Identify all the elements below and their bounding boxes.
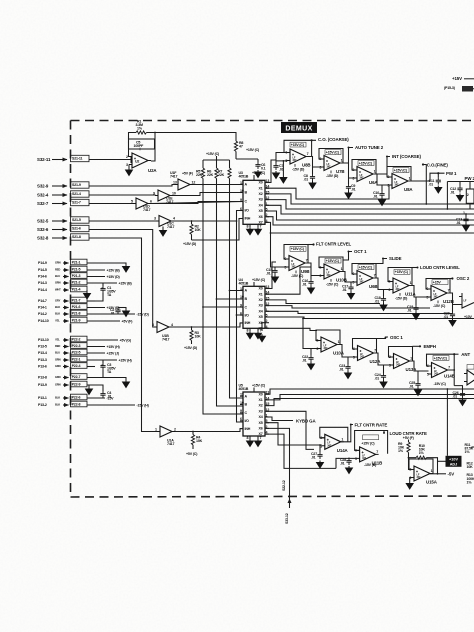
- label C.O. COARSE: [306, 137, 349, 156]
- wire U4 X6 run down: [262, 323, 266, 331]
- op-amp U14B: [427, 354, 455, 386]
- IC U3 4051B multiplexer: [239, 171, 270, 228]
- svg-text:ORN: ORN: [55, 281, 61, 285]
- svg-text:-15V (H): -15V (H): [137, 403, 150, 407]
- IC U4 4051B multiplexer: [239, 278, 270, 332]
- svg-text:7417: 7417: [143, 208, 150, 212]
- wire U11A to U12B: [409, 286, 428, 306]
- svg-text:OSC 2: OSC 2: [457, 276, 470, 281]
- op-amp U6B: [352, 264, 377, 290]
- svg-text:BLK: BLK: [55, 403, 60, 407]
- op-amp U9B: [284, 245, 309, 278]
- wire U13A to U14B: [410, 361, 429, 381]
- op-amp U12B: [426, 279, 454, 309]
- wire U14A input: [310, 444, 322, 452]
- svg-text:1: 1: [338, 340, 340, 344]
- svg-text:P14-6: P14-6: [38, 275, 47, 279]
- svg-text:+15V (J): +15V (J): [107, 351, 120, 355]
- svg-text:-5V: -5V: [448, 472, 455, 477]
- svg-text:10K: 10K: [467, 465, 474, 469]
- svg-text:P13-4: P13-4: [38, 351, 47, 355]
- svg-text:.01: .01: [429, 182, 434, 186]
- svg-text:INH: INH: [245, 321, 251, 325]
- svg-text:+5V (C): +5V (C): [186, 452, 198, 456]
- ground below C8: [309, 181, 316, 188]
- ground below C17: [348, 292, 355, 299]
- svg-text:BLU: BLU: [55, 274, 60, 278]
- svg-text:+15V (C): +15V (C): [326, 259, 340, 263]
- svg-text:3: 3: [126, 163, 128, 167]
- ground below C18: [380, 303, 387, 310]
- svg-text:X2: X2: [259, 404, 263, 408]
- svg-text:100PF: 100PF: [134, 144, 145, 148]
- ground below U8B input: [280, 176, 287, 183]
- capacitor C3: [95, 363, 116, 378]
- svg-text:GRN: GRN: [55, 261, 61, 265]
- op-amp U2A: [126, 153, 157, 173]
- capacitor C6 0.1: [236, 159, 266, 177]
- capacitor C28 .01: [340, 458, 352, 465]
- capacitor C12 .01: [450, 182, 463, 195]
- svg-text:BLK: BLK: [55, 312, 60, 316]
- resistor R1 3.3M: [136, 120, 147, 135]
- svg-text:6: 6: [284, 257, 286, 261]
- resistor R13 100K: [467, 473, 474, 484]
- connector input S32-9 to S21-9: [37, 182, 89, 189]
- svg-text:2: 2: [319, 266, 321, 270]
- capacitor C15 .01: [266, 268, 278, 275]
- svg-text:47: 47: [239, 145, 243, 149]
- svg-text:X2: X2: [259, 298, 263, 302]
- svg-text:2: 2: [467, 193, 469, 197]
- svg-text:7: 7: [306, 259, 308, 263]
- svg-text:8: 8: [247, 436, 249, 440]
- svg-text:P22-7: P22-7: [72, 375, 81, 379]
- ground below U4 pin8: [247, 331, 254, 338]
- svg-text:2: 2: [389, 355, 391, 359]
- bus vertical I/O: [236, 221, 243, 316]
- svg-text:P13-8: P13-8: [38, 376, 47, 380]
- wire U3 X6 rail: [266, 217, 474, 225]
- wire U3 X5 rail: [266, 211, 474, 220]
- svg-text:13: 13: [173, 181, 177, 185]
- svg-text:X3: X3: [259, 409, 263, 413]
- svg-text:P13-9: P13-9: [38, 383, 47, 387]
- svg-text:+15V (C): +15V (C): [359, 265, 373, 269]
- wire U1A output to U5 INH: [175, 429, 243, 433]
- wire U5 X2 rail: [266, 399, 474, 406]
- svg-text:1: 1: [341, 438, 343, 442]
- connector input S32-8 to S21-8: [37, 234, 89, 241]
- wire row A to U3: [193, 184, 243, 186]
- svg-text:S32-6: S32-6: [37, 227, 49, 232]
- svg-text:+5V (F): +5V (F): [182, 172, 194, 176]
- wire U6A to U8A: [373, 174, 389, 191]
- svg-text:X4: X4: [259, 203, 263, 207]
- capacitor C5 100PF feedback: [129, 139, 155, 150]
- svg-text:U12A: U12A: [370, 359, 382, 364]
- svg-text:P13-6: P13-6: [38, 365, 47, 369]
- connector input P13-2 to P22-8: [38, 401, 150, 407]
- capacitor C11 .01: [429, 173, 441, 186]
- svg-text:-15V (C): -15V (C): [326, 283, 339, 287]
- svg-text:+15V (C): +15V (C): [395, 270, 409, 274]
- svg-text:I/O: I/O: [245, 419, 250, 423]
- wire S33-12 crossing border: [288, 474, 292, 508]
- svg-text:2: 2: [320, 436, 322, 440]
- svg-text:P22-5: P22-5: [72, 350, 81, 354]
- svg-text:10K: 10K: [195, 228, 202, 232]
- wire U3 X2 rail: [266, 194, 474, 204]
- ground below U4 pin7: [255, 331, 262, 338]
- ground below U15A: [406, 478, 414, 489]
- trimmer box PW 2: [463, 182, 474, 216]
- connector input P13-1 to P22-6: [38, 394, 114, 400]
- svg-text:GRY: GRY: [55, 299, 61, 303]
- svg-text:U2A: U2A: [148, 168, 157, 173]
- svg-text:S32-7: S32-7: [37, 201, 49, 206]
- svg-text:.01: .01: [453, 394, 458, 398]
- svg-text:X0: X0: [259, 181, 263, 185]
- svg-text:-15V (C): -15V (C): [291, 274, 304, 278]
- svg-text:11: 11: [240, 393, 244, 397]
- svg-text:I/O: I/O: [245, 209, 250, 213]
- svg-text:-15V (D): -15V (D): [395, 296, 408, 300]
- buffer U1B 7417: [152, 322, 173, 342]
- svg-text:-15V (D): -15V (D): [292, 168, 305, 172]
- svg-text:.01: .01: [444, 315, 449, 319]
- svg-text:1: 1: [409, 177, 411, 181]
- ground below C15: [272, 275, 279, 282]
- label ANT: [453, 352, 470, 357]
- svg-text:S21-11: S21-11: [72, 156, 82, 160]
- svg-text:22K: 22K: [207, 173, 214, 177]
- svg-text:P14-1: P14-1: [38, 306, 47, 310]
- resistors R5 R6 R7 22K pull-ups: [196, 152, 231, 203]
- svg-text:1: 1: [341, 267, 343, 271]
- wire PW 2 net: [447, 176, 474, 210]
- svg-text:-15V (C): -15V (C): [434, 382, 447, 386]
- wire U5 X1 rail: [266, 395, 474, 400]
- svg-text:P14-3: P14-3: [38, 281, 47, 285]
- svg-text:X1: X1: [259, 292, 263, 296]
- ground below C11: [435, 186, 442, 193]
- svg-text:1: 1: [155, 428, 157, 432]
- svg-text:+15V (C): +15V (C): [206, 152, 220, 156]
- svg-text:+15V (C): +15V (C): [359, 161, 373, 165]
- svg-text:6: 6: [355, 449, 357, 453]
- connector input P13-10 to P22-2: [38, 336, 132, 342]
- connector input P14-1 to P21-6: [38, 304, 129, 317]
- svg-text:+15V: +15V: [452, 76, 462, 81]
- connector input P13-9 to P22-9: [38, 381, 92, 394]
- op-amp U7B: [319, 149, 344, 179]
- svg-text:+15V (C): +15V (C): [291, 247, 305, 251]
- ground below C19: [413, 312, 420, 319]
- svg-text:I/O: I/O: [245, 313, 250, 317]
- svg-text:+15V (H): +15V (H): [107, 345, 121, 349]
- svg-text:.01: .01: [373, 194, 378, 198]
- node S33-12 vertical label: [285, 513, 289, 524]
- wire U8B to U7B: [312, 157, 321, 175]
- svg-text:8: 8: [247, 328, 249, 332]
- node S22-12 vertical label: [282, 480, 286, 491]
- resistor R10 10K: [408, 444, 438, 474]
- ground below U5 pin8: [247, 439, 254, 446]
- svg-text:X1: X1: [259, 186, 263, 190]
- wire U5 X7 run: [266, 434, 336, 468]
- svg-text:+15V (D): +15V (D): [107, 275, 121, 279]
- ground below C25: [415, 388, 422, 395]
- svg-text:PW 2: PW 2: [465, 176, 474, 181]
- op-amp U11B: [355, 431, 388, 466]
- svg-text:+5V (F): +5V (F): [403, 436, 415, 440]
- svg-text:3: 3: [387, 184, 389, 188]
- op-amp U8A: [387, 167, 413, 193]
- svg-text:S21-5: S21-5: [72, 218, 81, 222]
- svg-text:P21-4: P21-4: [72, 287, 81, 291]
- wire +10V feed: [447, 388, 449, 456]
- bus vertical A to U5: [230, 291, 244, 399]
- svg-text:P21-8: P21-8: [72, 311, 81, 315]
- svg-text:X0: X0: [259, 392, 263, 396]
- resistor R8 47: [234, 141, 260, 159]
- op-amp U10B: [319, 257, 347, 287]
- capacitor C19 .01: [407, 305, 419, 312]
- svg-text:7: 7: [448, 289, 450, 293]
- svg-text:X1: X1: [259, 398, 263, 402]
- svg-text:7: 7: [374, 274, 376, 278]
- buffer U1F 7417: [89, 171, 195, 190]
- svg-text:3: 3: [319, 166, 321, 170]
- svg-text:.01: .01: [375, 299, 380, 303]
- op-amp U6A: [352, 160, 378, 186]
- svg-text:AUTO TUNE 2: AUTO TUNE 2: [355, 145, 384, 150]
- svg-text:S32-8: S32-8: [37, 235, 49, 240]
- svg-text:P14-9: P14-9: [38, 261, 47, 265]
- wire U3 X0 run: [266, 160, 276, 183]
- svg-text:BLU: BLU: [55, 351, 60, 355]
- svg-text:22K: 22K: [218, 173, 225, 177]
- wire row B to U3: [173, 192, 243, 196]
- wire U4 X4 rail: [266, 311, 452, 313]
- ground below U2A: [126, 168, 133, 175]
- connector input P14-5 to P21-5: [38, 266, 121, 272]
- svg-text:10K: 10K: [196, 439, 203, 443]
- svg-text:3: 3: [152, 323, 154, 327]
- svg-text:P22-2: P22-2: [72, 337, 81, 341]
- svg-text:.01: .01: [340, 461, 345, 465]
- svg-text:2: 2: [387, 175, 389, 179]
- ground below C10: [379, 198, 386, 205]
- svg-text:2: 2: [126, 155, 128, 159]
- svg-text:X2: X2: [259, 192, 263, 196]
- ground below C16: [308, 286, 315, 293]
- svg-text:4051B: 4051B: [239, 175, 249, 179]
- ground below C23: [345, 371, 352, 378]
- wire U7B to U6A: [343, 163, 354, 184]
- svg-text:12: 12: [192, 181, 196, 185]
- svg-text:FLT CNTR RATE: FLT CNTR RATE: [355, 422, 388, 427]
- bus vertical I/O to U5: [237, 315, 244, 422]
- svg-text:7: 7: [260, 328, 262, 332]
- svg-text:6: 6: [353, 347, 355, 351]
- svg-text:C.O.(FINE): C.O.(FINE): [427, 162, 449, 167]
- svg-text:TA: TA: [107, 370, 112, 374]
- wire U9B to U10B: [305, 263, 321, 279]
- svg-text:+10V: +10V: [464, 315, 473, 319]
- svg-text:P14-7: P14-7: [38, 299, 47, 303]
- connector input P14-2 to P21-8: [38, 310, 150, 316]
- ground below C22: [308, 362, 315, 369]
- wire U10A to U12A: [337, 345, 355, 365]
- svg-text:.01: .01: [456, 221, 461, 225]
- svg-text:1: 1: [374, 170, 376, 174]
- capacitor C9 .01: [346, 184, 356, 191]
- svg-text:.01: .01: [302, 358, 307, 362]
- svg-text:INT (COARSE): INT (COARSE): [392, 154, 421, 159]
- svg-text:X5: X5: [259, 315, 263, 319]
- wire U10B to U6B: [340, 272, 354, 285]
- svg-text:S32-4: S32-4: [37, 192, 49, 197]
- svg-text:6: 6: [150, 200, 152, 204]
- svg-text:C.O. (COARSE): C.O. (COARSE): [318, 137, 349, 142]
- svg-text:.01: .01: [302, 282, 307, 286]
- wire U5 X6 run to S33-12: [266, 428, 290, 474]
- connector input S32-7 to S21-7: [37, 199, 89, 206]
- label OSC 2: [450, 276, 470, 281]
- capacitor C1: [95, 286, 116, 301]
- label -15V B: [364, 463, 377, 467]
- wire U3 X3 rail: [266, 200, 474, 209]
- svg-text:U6B: U6B: [369, 284, 377, 289]
- ground below C9: [345, 191, 352, 198]
- resistor R11 87.5K: [465, 443, 474, 454]
- svg-text:P14-5: P14-5: [38, 268, 47, 272]
- wire U2A feedback loop: [129, 133, 156, 162]
- buffer U1C 7417: [89, 216, 175, 230]
- svg-text:GRN: GRN: [55, 375, 61, 379]
- capacitor C20 .01: [444, 312, 456, 319]
- svg-text:-15V (D): -15V (D): [326, 174, 339, 178]
- connector input S32-4 to S21-4: [37, 191, 89, 198]
- connector input P13-6 to P22-4: [38, 363, 95, 369]
- svg-text:P21-3: P21-3: [72, 274, 81, 278]
- svg-text:INH: INH: [245, 217, 251, 221]
- svg-text:9: 9: [240, 409, 242, 413]
- svg-text:U2: U2: [135, 160, 139, 164]
- ground below C24: [380, 380, 387, 387]
- connector input P14-9 to P21-1: [38, 259, 129, 272]
- svg-text:.01: .01: [351, 187, 356, 191]
- svg-text:1: 1: [431, 469, 433, 473]
- svg-text:1: 1: [410, 357, 412, 361]
- svg-text:S21-8: S21-8: [72, 235, 81, 239]
- svg-text:YEL: YEL: [55, 319, 60, 323]
- svg-text:+15V (D): +15V (D): [183, 242, 197, 246]
- label C.O. FINE: [408, 162, 448, 205]
- svg-text:+15V (C): +15V (C): [394, 168, 408, 172]
- svg-text:P13-10: P13-10: [38, 338, 49, 342]
- op-amp U8B: [284, 140, 312, 171]
- svg-text:2: 2: [316, 339, 318, 343]
- svg-text:X0: X0: [259, 287, 263, 291]
- svg-text:P22-1: P22-1: [72, 357, 81, 361]
- capacitor C8 .01: [304, 174, 316, 181]
- capacitor C4: [89, 385, 112, 398]
- svg-text:RED: RED: [55, 268, 60, 272]
- svg-text:+15V (C): +15V (C): [326, 150, 340, 154]
- svg-text:U10A: U10A: [333, 351, 345, 356]
- svg-text:0.1: 0.1: [261, 166, 266, 170]
- svg-text:P14-4: P14-4: [38, 288, 47, 292]
- wire U6B to U11A: [373, 278, 390, 296]
- label EMPH: [413, 344, 436, 349]
- buffer U1E 7417: [89, 190, 176, 204]
- wire U5 X0 rail: [266, 389, 474, 394]
- wire U15A output -5V: [430, 472, 454, 477]
- svg-text:P21-9: P21-9: [72, 318, 81, 322]
- ground below U3 pin7: [255, 227, 262, 234]
- svg-text:P22-4: P22-4: [72, 364, 81, 368]
- connector input P14-4 to P21-4: [38, 286, 90, 299]
- svg-text:8: 8: [247, 224, 249, 228]
- wire U4 X5 rail: [266, 317, 474, 319]
- svg-text:+15V (C): +15V (C): [252, 384, 266, 388]
- svg-text:U15A: U15A: [426, 480, 438, 485]
- label KYBD GA: [296, 419, 316, 424]
- wire row I/O to U3: [174, 211, 243, 222]
- wire U15A feedback input: [409, 458, 415, 470]
- op-amp U15B partial: [459, 293, 474, 319]
- svg-text:KYBD GA: KYBD GA: [296, 419, 316, 424]
- svg-text:BLK: BLK: [55, 305, 60, 309]
- wire U12A to U13A: [374, 353, 391, 373]
- svg-text:P13-3: P13-3: [38, 358, 47, 362]
- svg-text:.01: .01: [342, 288, 347, 292]
- svg-text:X4: X4: [259, 415, 263, 419]
- buffer U1D 7417: [89, 198, 152, 212]
- svg-text:+15V (C): +15V (C): [434, 356, 448, 360]
- svg-text:10: 10: [240, 189, 244, 193]
- svg-text:P13-2: P13-2: [38, 403, 47, 407]
- svg-text:.01: .01: [450, 190, 455, 194]
- svg-text:+15V (B): +15V (B): [119, 281, 133, 285]
- svg-text:4: 4: [173, 217, 175, 221]
- wire S21-11 row: [89, 156, 131, 163]
- label OCT 1: [343, 249, 367, 260]
- wire row INH to U3: [192, 219, 244, 241]
- svg-text:+15V (C): +15V (C): [361, 442, 375, 446]
- ground below U1C: [160, 229, 167, 236]
- svg-text:U8A: U8A: [404, 187, 413, 192]
- svg-text:10: 10: [240, 401, 244, 405]
- wire rail drop to U9B: [270, 232, 286, 268]
- svg-text:FLT CNTR LEVEL: FLT CNTR LEVEL: [316, 242, 352, 247]
- svg-text:7417: 7417: [167, 225, 174, 229]
- op-amp U15B partial row3: [464, 365, 474, 386]
- svg-text:7417: 7417: [162, 337, 169, 341]
- svg-text:.01: .01: [407, 308, 412, 312]
- ground U4 X6: [259, 334, 266, 341]
- svg-text:7: 7: [307, 152, 309, 156]
- svg-text:GRN: GRN: [55, 383, 61, 387]
- svg-text:7: 7: [260, 436, 262, 440]
- svg-text:7: 7: [376, 450, 378, 454]
- op-amp U10A: [316, 330, 345, 356]
- svg-text:P14-10: P14-10: [38, 319, 49, 323]
- op-amp U14A: [320, 427, 349, 453]
